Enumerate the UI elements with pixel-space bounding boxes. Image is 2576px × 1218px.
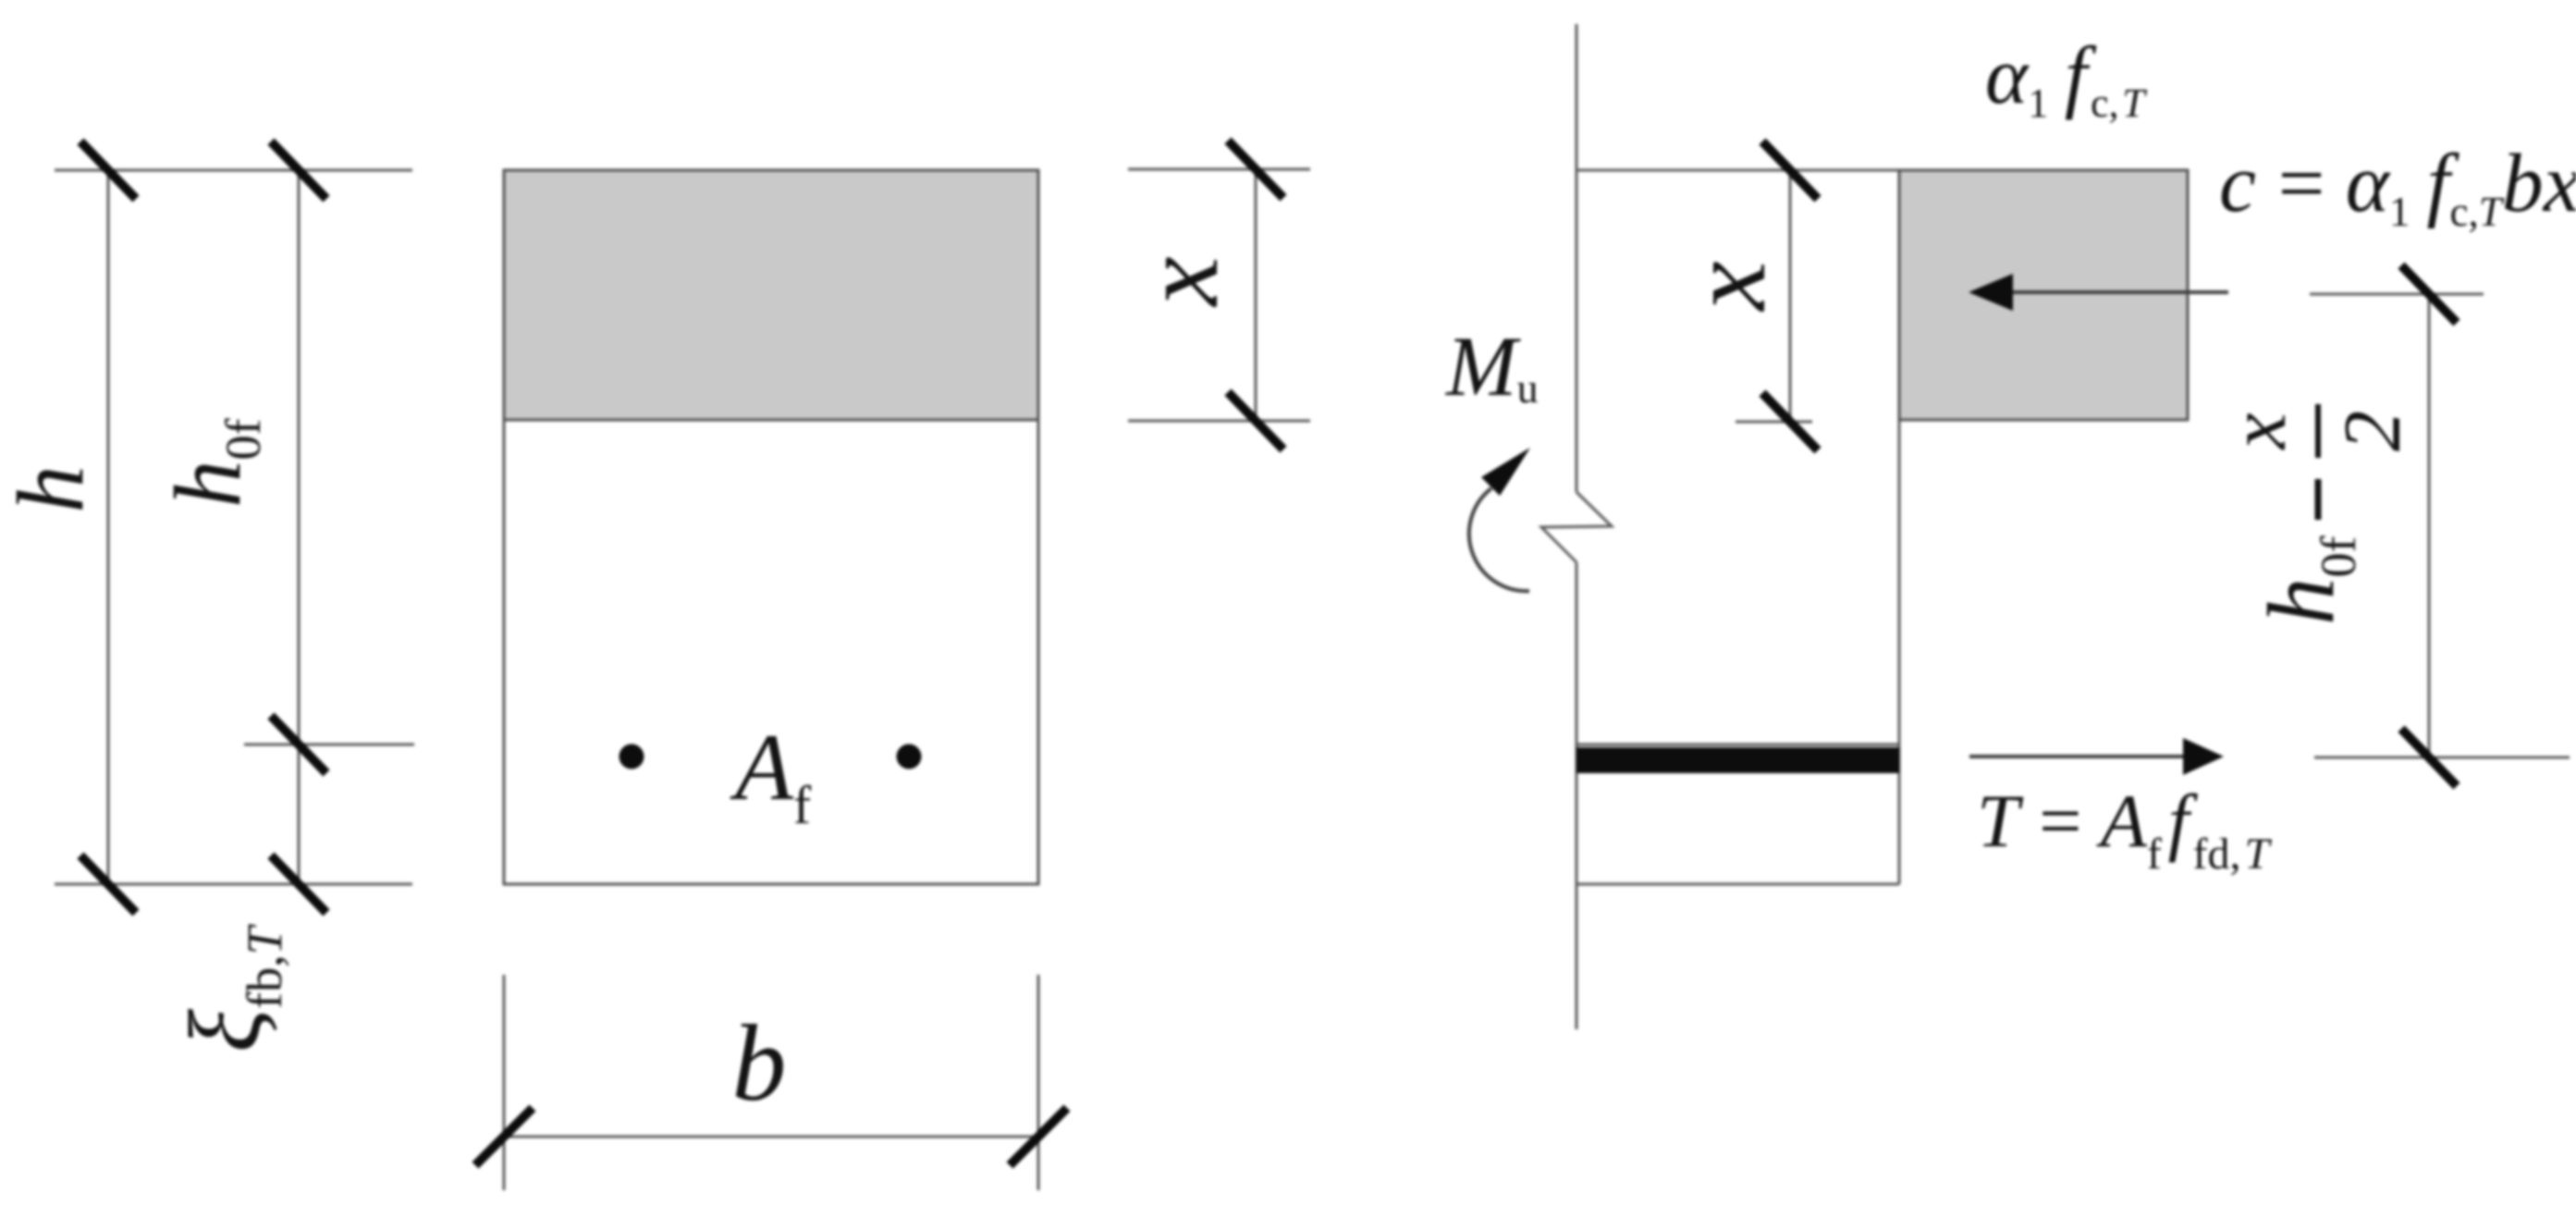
wire: stress block left edge extended (1898, 420, 1901, 884)
b dimension (504, 975, 1038, 1190)
wire: dimension line h0f (298, 170, 301, 884)
moment arrowhead (1481, 448, 1530, 496)
break symbol (1541, 492, 1612, 562)
wire: dim top short line (2310, 293, 2484, 296)
svg-text:T = Af f fd, T: T = Af f fd, T (1977, 779, 2272, 879)
moment arc Mu (1469, 488, 1529, 591)
wire: rebar-level extension line (244, 744, 414, 746)
x dimension (left figure) (1128, 169, 1310, 421)
compression force arrowhead (1969, 274, 2013, 311)
wire: beam edge upper (1576, 24, 1578, 492)
tension force arrow T line (1969, 755, 2187, 758)
label h0f - x/2 (rotated with fraction) (2214, 404, 2418, 625)
tick at x-dim bottom (1228, 392, 1283, 449)
compression zone (gray) (504, 170, 1038, 420)
wire: top extension line (left dims) (55, 169, 412, 172)
tick at b left (475, 1108, 533, 1165)
wire: bottom extension line (left dims) (55, 883, 412, 886)
tick at dim bottom (2401, 729, 2457, 786)
tick at h0f bottom (271, 855, 326, 913)
stress block (gray) (1899, 170, 2188, 420)
tick at right x-dim top (1762, 141, 1818, 199)
svg-text:b: b (732, 1003, 787, 1124)
wire: dimension line h (107, 170, 110, 884)
wire: x-dim top line (1128, 168, 1310, 171)
tension force arrowhead (2183, 738, 2224, 775)
concrete section outline (504, 170, 1038, 884)
tick at b right (1010, 1108, 1067, 1165)
svg-text:h: h (0, 465, 104, 513)
tick at h bottom (80, 855, 136, 913)
label h0f (155, 419, 271, 509)
wire: dim vertical line (2428, 294, 2431, 757)
tick at h0f top (271, 141, 326, 199)
tick at x-dim top (1228, 141, 1283, 198)
svg-text:ξfb,T: ξfb,T (168, 923, 292, 1052)
wire: b extension left (503, 975, 506, 1190)
svg-text:x: x (1118, 256, 1241, 307)
h0f - x/2 dimension (2310, 294, 2570, 757)
svg-text:2: 2 (2328, 411, 2418, 451)
wire: b extension right (1037, 975, 1040, 1190)
svg-text:h0f: h0f (2249, 536, 2366, 626)
reinforcement bar (thick) (1576, 747, 1899, 773)
tick at h top (80, 141, 136, 199)
tick at dim top (2401, 265, 2457, 323)
compression force arrow C line (2013, 290, 2228, 294)
wire: rebar thin line (1576, 744, 1899, 746)
svg-text:c = α1 fc,Tbx: c = α1 fc,Tbx (2219, 138, 2576, 235)
label x (left) (1118, 256, 1241, 307)
wire: x-dim bottom line (1128, 420, 1310, 423)
tick at right x-dim bottom (1762, 393, 1818, 450)
wire: beam bottom line (1576, 883, 1899, 886)
x dimension (right figure) (1736, 170, 1812, 422)
svg-text:α1 f c, T: α1 f c, T (1985, 31, 2148, 126)
svg-text:h0f: h0f (155, 419, 271, 509)
svg-text:x: x (2214, 412, 2303, 450)
wire: x-dim vertical line (1255, 169, 1257, 421)
wire: beam top line (1576, 169, 2188, 172)
wire: x-dim vertical (1789, 170, 1792, 422)
wire: dim bottom short line (2314, 757, 2570, 759)
svg-text:x: x (1665, 261, 1788, 312)
rebar dot right (897, 744, 922, 769)
wire: x-dim bottom short line (1736, 421, 1812, 424)
wire: b dimension line (504, 1136, 1038, 1138)
rebar dot left (619, 744, 644, 769)
svg-text:Mu: Mu (1444, 319, 1539, 413)
label x (right) (1665, 261, 1788, 312)
label xi_fb,T (168, 923, 292, 1052)
label h (0, 465, 104, 513)
tick at rebar level (271, 716, 326, 773)
wire: beam edge lower (1576, 562, 1578, 1029)
